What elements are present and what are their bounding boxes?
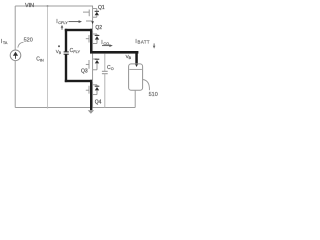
transistor Q2 — [86, 31, 97, 51]
svg-text:VIN: VIN — [25, 3, 34, 9]
capacitor CFLY — [64, 51, 69, 53]
svg-text:510: 510 — [149, 92, 158, 98]
svg-text:Q1: Q1 — [98, 5, 105, 11]
current source I_TA (adapter) — [10, 50, 21, 61]
svg-text:O: O — [111, 67, 114, 71]
wire battery to ground — [134, 90, 136, 107]
transistor Q1 — [83, 6, 97, 29]
wire bold CFLY vertical upper — [65, 29, 67, 52]
battery 510 — [129, 64, 143, 90]
wire bold VB horizontal to battery — [90, 51, 138, 54]
capacitor CO — [102, 70, 108, 72]
node junction dot CIN top — [47, 5, 49, 7]
svg-text:CFLY: CFLY — [58, 21, 68, 25]
label 510 with leader — [143, 80, 150, 91]
wire CO branch — [104, 54, 106, 72]
wire bold Q4 branch vertical — [90, 80, 92, 110]
wire CIN branch — [47, 6, 49, 108]
wire VIN top rail — [15, 5, 93, 7]
svg-text:TA: TA — [3, 41, 8, 45]
wire left input branch upper — [14, 6, 16, 50]
wire bold CFLY vertical lower — [65, 54, 67, 82]
node dot near VB label — [58, 45, 60, 47]
transistor Q4 — [86, 82, 97, 108]
wire left input branch lower — [14, 61, 16, 108]
wire bold bottom segment N2 — [65, 80, 93, 82]
svg-text:520: 520 — [24, 38, 33, 44]
svg-text:BATT: BATT — [138, 40, 150, 45]
svg-text:Q4: Q4 — [95, 100, 102, 106]
svg-text:FLY: FLY — [73, 50, 80, 54]
wire bold battery drop — [135, 53, 138, 64]
transistor Q3 — [86, 54, 97, 81]
wire bold Q2 branch vertical — [90, 29, 92, 54]
node junction dot CIN bottom — [47, 107, 49, 109]
svg-text:Q3: Q3 — [81, 68, 88, 74]
current arrow up at CFLY corner — [61, 27, 63, 30]
wire bold top segment N1 — [65, 29, 93, 31]
svg-text:Q2: Q2 — [95, 25, 102, 31]
wire ground bottom rail — [15, 107, 135, 109]
svg-text:IN: IN — [40, 58, 44, 62]
leader 520 — [18, 42, 24, 47]
ground arrow below rail — [88, 110, 94, 114]
